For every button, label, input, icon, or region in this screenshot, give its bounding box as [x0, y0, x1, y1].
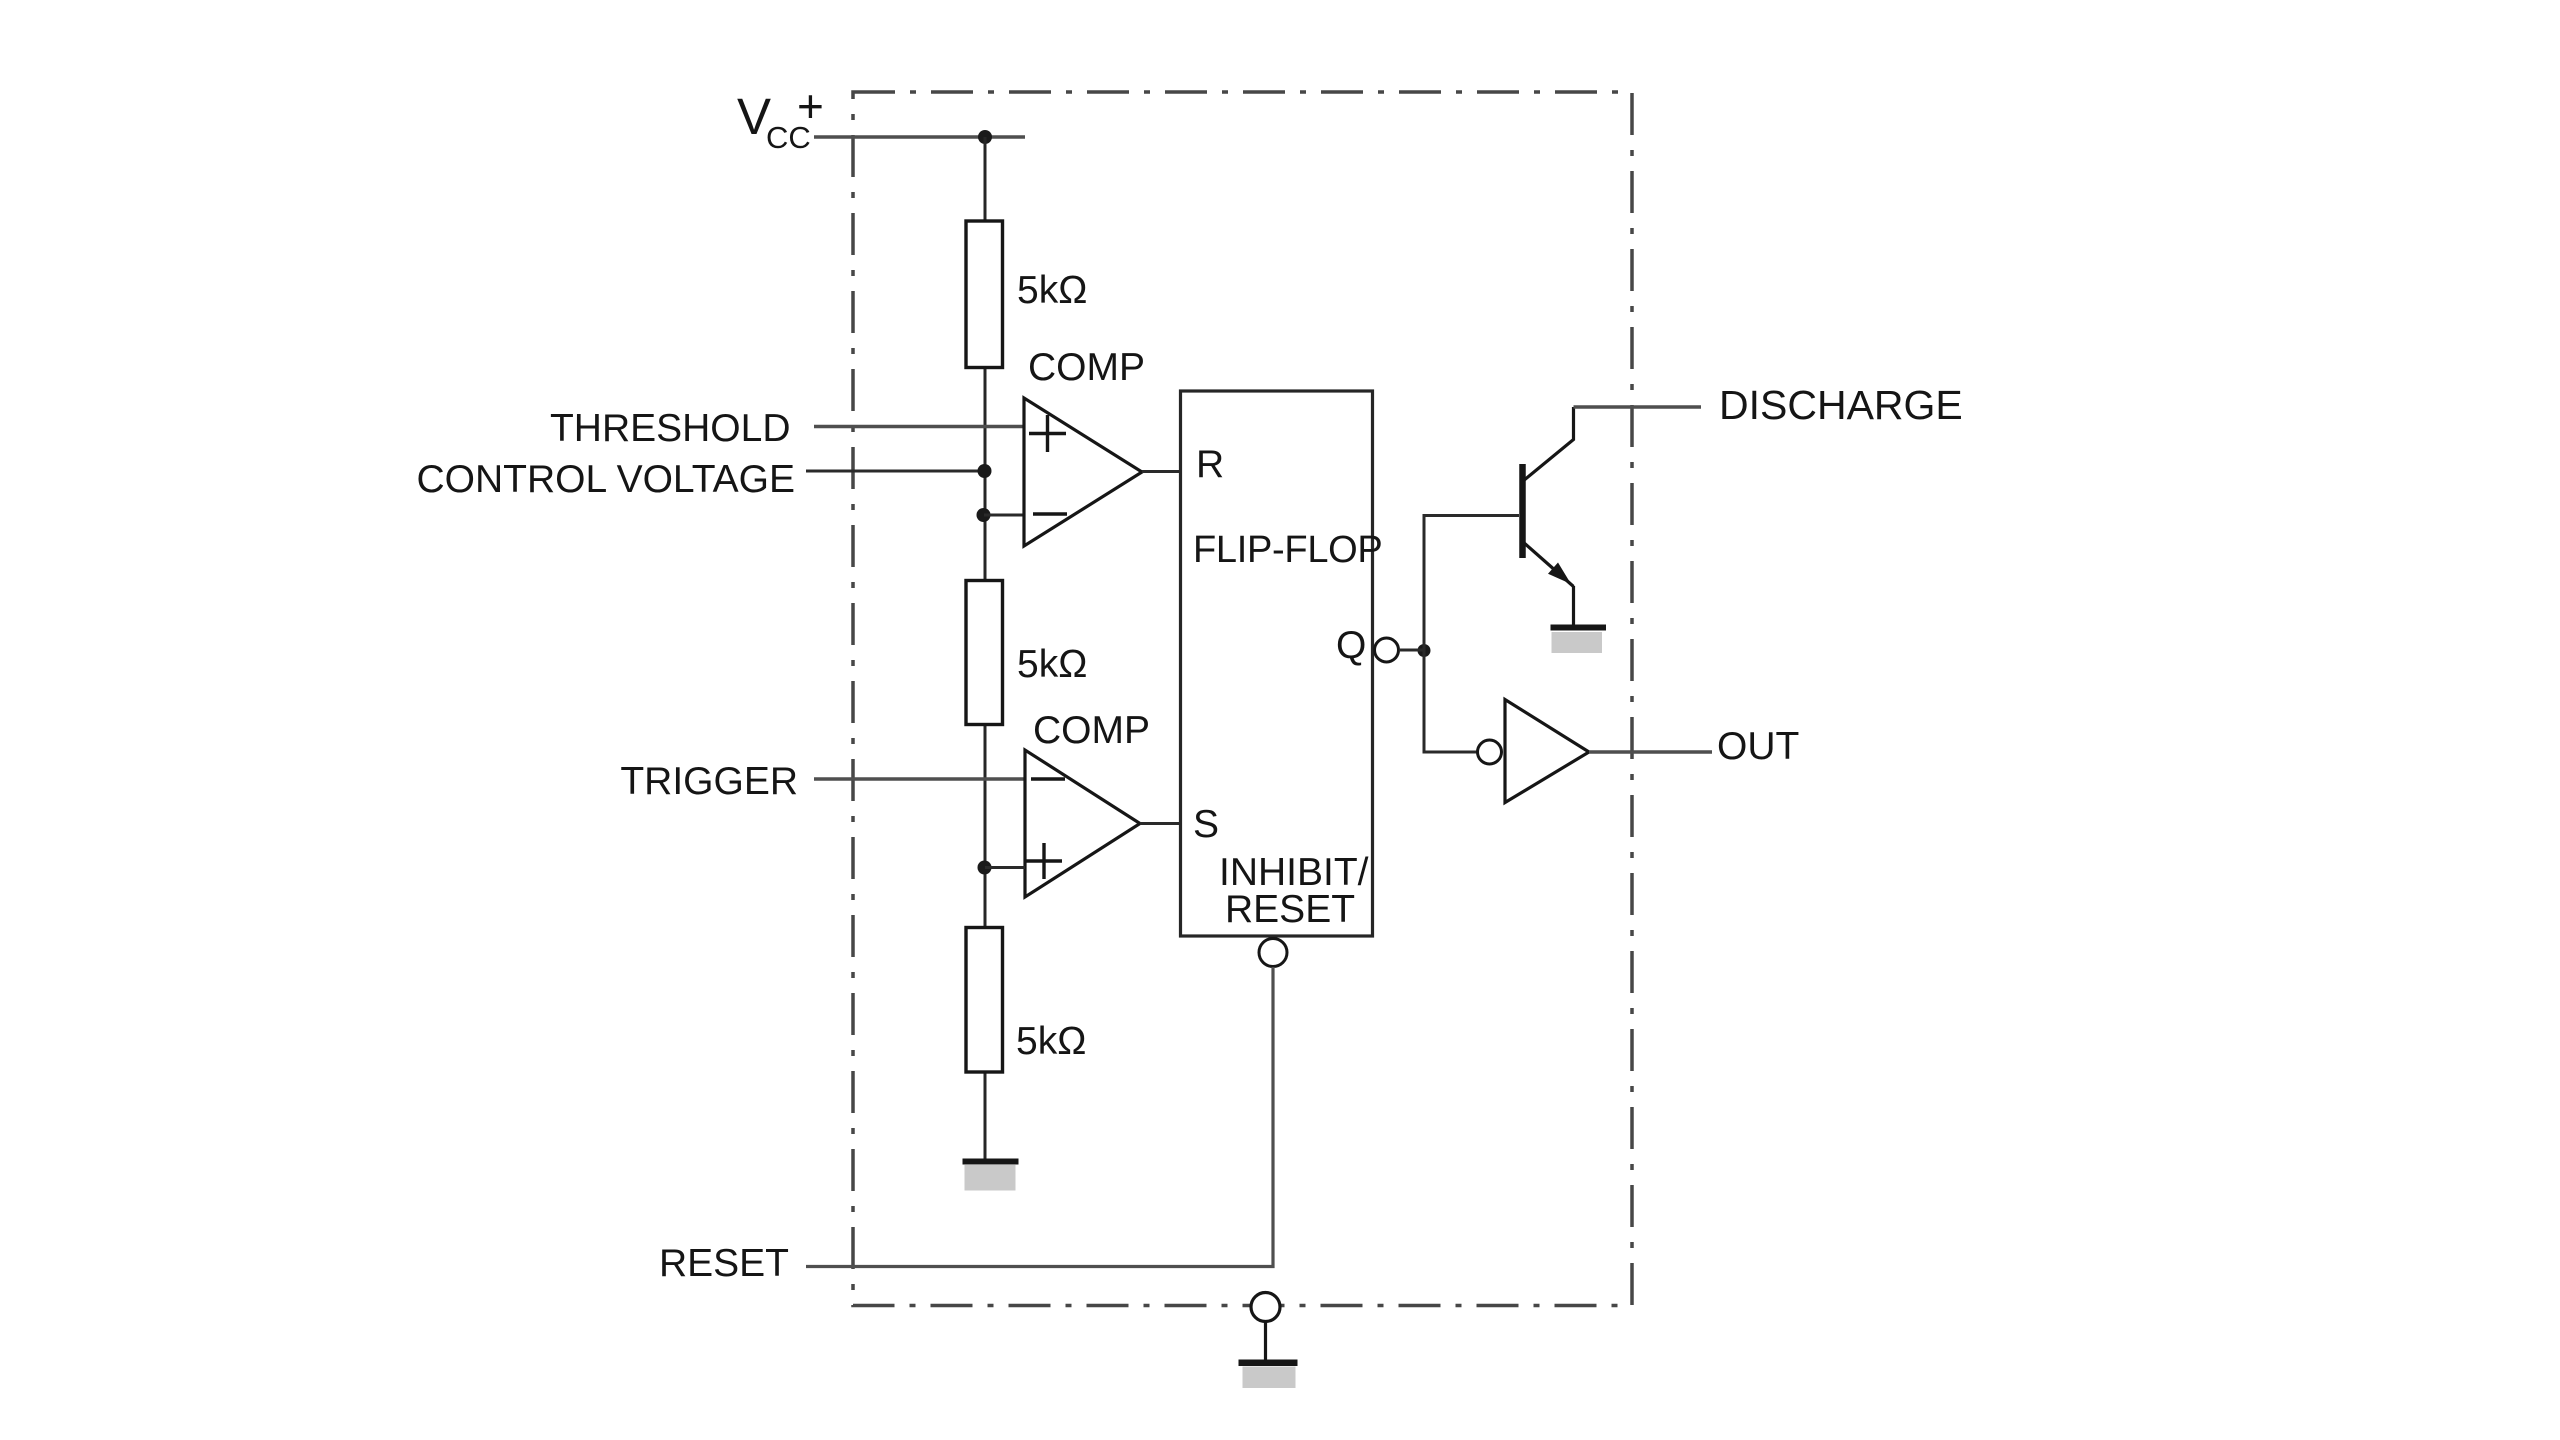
- svg-text:CONTROL VOLTAGE: CONTROL VOLTAGE: [417, 458, 796, 501]
- svg-text:Q: Q: [1336, 624, 1366, 667]
- wire: resistor divider chain vertical: [984, 137, 987, 1159]
- op-amp U2 comparator 2 (trigger): [1025, 750, 1140, 897]
- inverting bubble (output buffer input): [1478, 740, 1502, 764]
- wire: Q junction up to transistor base: [1424, 516, 1519, 653]
- ground (divider chain): [963, 1159, 1019, 1191]
- wire: buffer output to OUT: [1589, 750, 1712, 753]
- svg-text:R: R: [1196, 443, 1224, 486]
- transistor Q1 base bar: [1519, 464, 1526, 558]
- ground (GND pin): [1239, 1360, 1298, 1389]
- svg-text:DISCHARGE: DISCHARGE: [1719, 382, 1963, 428]
- transistor Q1 emitter: [1523, 542, 1574, 587]
- emitter arrowhead: [1548, 563, 1571, 585]
- wire: U1 output to flip-flop R: [1142, 470, 1180, 473]
- node: comparator 1 - input junction: [977, 508, 991, 522]
- wire: TRIGGER to comparator 2 - input: [814, 777, 1025, 780]
- wire: RESET to flip-flop inhibit input: [806, 967, 1273, 1267]
- svg-text:RESET: RESET: [1225, 888, 1355, 931]
- wire: Q junction down to output inverter: [1424, 649, 1478, 752]
- GND pin bubble on package border: [1251, 1293, 1280, 1322]
- wire: Q bubble to junction: [1399, 649, 1424, 652]
- svg-text:OUT: OUT: [1717, 725, 1799, 768]
- resistor R3 5k (bottom): [966, 928, 1003, 1073]
- inverting bubble (flip-flop Q output): [1375, 638, 1399, 662]
- IC package boundary (dash-dot border): [853, 92, 1632, 1306]
- VCC+ pin label: [737, 80, 824, 155]
- plus symbol (U2 + input): [1026, 843, 1062, 879]
- wire: VCC input: [814, 135, 1025, 138]
- ground (transistor emitter): [1551, 625, 1607, 654]
- minus symbol (U2 - input): [1031, 777, 1065, 781]
- output buffer U4 (inverter triangle): [1505, 700, 1589, 803]
- resistor R1 5k (top): [966, 221, 1003, 368]
- node: control voltage / R1-R2 junction: [978, 464, 992, 478]
- wire: U2 output to flip-flop S: [1140, 822, 1180, 825]
- op-amp U1 comparator 1 (threshold): [1024, 398, 1142, 546]
- svg-text:+: +: [797, 80, 824, 132]
- transistor Q1 collector: [1523, 407, 1574, 481]
- wire: THRESHOLD to comparator 1 + input: [814, 425, 1024, 428]
- svg-text:COMP: COMP: [1033, 709, 1150, 752]
- resistor R2 5k (middle): [966, 581, 1003, 725]
- inverting bubble (flip-flop INHIBIT/RESET input): [1259, 939, 1287, 967]
- node: comparator 2 + input junction: [978, 861, 992, 875]
- minus symbol (U1 - input): [1033, 512, 1067, 516]
- svg-text:S: S: [1193, 803, 1219, 846]
- svg-text:5kΩ: 5kΩ: [1017, 643, 1087, 686]
- svg-text:5kΩ: 5kΩ: [1017, 269, 1087, 312]
- wire: divider node to comparator 2 + input: [985, 866, 1025, 869]
- svg-text:RESET: RESET: [659, 1242, 789, 1285]
- svg-text:TRIGGER: TRIGGER: [620, 760, 798, 803]
- node: VCC / divider top junction: [978, 130, 992, 144]
- svg-text:COMP: COMP: [1028, 346, 1145, 389]
- wire: collector to DISCHARGE: [1574, 405, 1702, 408]
- wire: emitter down to ground: [1572, 586, 1575, 625]
- svg-text:5kΩ: 5kΩ: [1016, 1020, 1086, 1063]
- plus symbol (U1 + input): [1029, 415, 1066, 452]
- svg-text:THRESHOLD: THRESHOLD: [550, 407, 791, 450]
- wire: GND pin stem: [1264, 1322, 1267, 1361]
- node: Q output junction: [1418, 644, 1431, 657]
- wire: CONTROL VOLTAGE to divider node: [806, 470, 985, 473]
- wire: divider node to comparator 1 - input: [984, 514, 1024, 517]
- svg-text:FLIP-FLOP: FLIP-FLOP: [1193, 529, 1382, 571]
- flip-flop U3 box: [1181, 391, 1373, 936]
